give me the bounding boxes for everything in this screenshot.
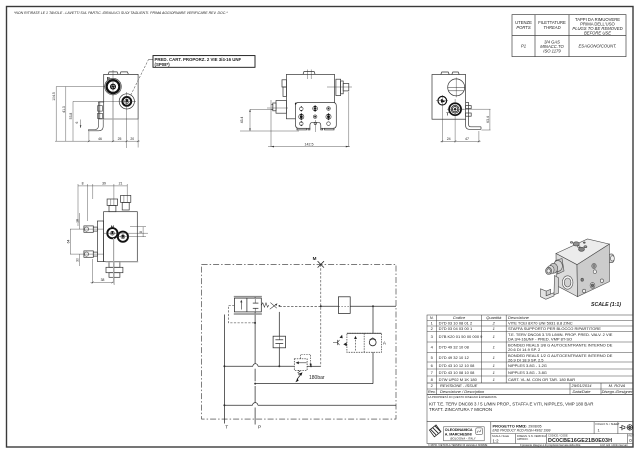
svg-text:ISO 1179: ISO 1179 bbox=[543, 49, 561, 54]
port M bbox=[107, 228, 117, 238]
svg-text:1:2: 1:2 bbox=[493, 438, 500, 443]
bottom dimension 142.5 bbox=[270, 100, 272, 147]
svg-text:8: 8 bbox=[139, 231, 143, 233]
svg-text:1: 1 bbox=[493, 355, 495, 360]
centerlines bbox=[56, 86, 105, 88]
svg-text:20: 20 bbox=[130, 137, 134, 141]
top tab 1 bbox=[108, 72, 118, 75]
bracket clip tabs bbox=[98, 106, 103, 111]
svg-text:Disegn./Designer: Disegn./Designer bbox=[602, 389, 633, 394]
mid horizontal line bbox=[224, 365, 253, 367]
left fitting (cylinder stack pointing left) bbox=[556, 259, 565, 275]
arrow in left cell bbox=[240, 302, 242, 310]
top dimension line bbox=[78, 185, 127, 187]
svg-text:1: 1 bbox=[493, 370, 495, 375]
svg-text:PORTS: PORTS bbox=[516, 25, 531, 30]
svg-text:PROGETTO RMD: PROGETTO RMD bbox=[493, 423, 526, 428]
left fitting upper bbox=[282, 80, 286, 87]
ports/threads table top-right bbox=[512, 15, 626, 57]
top tabs bbox=[441, 72, 449, 75]
bracket foot 3D bbox=[541, 289, 555, 300]
svg-text:Quantità: Quantità bbox=[486, 315, 502, 320]
svg-text:104.5: 104.5 bbox=[52, 92, 56, 101]
left dims bbox=[79, 213, 81, 229]
svg-text:20.6 DI 14.9 SP. 2: 20.6 DI 14.9 SP. 2 bbox=[508, 347, 541, 352]
right vertical dim 63.4 bbox=[462, 108, 491, 110]
title block outer bbox=[427, 422, 633, 444]
svg-text:STAFFA SUPPORTO PER BLOCCO RIP: STAFFA SUPPORTO PER BLOCCO RIPARTITORE bbox=[508, 326, 601, 331]
small port circle with glyph bbox=[438, 96, 447, 105]
svg-text:T: T bbox=[446, 111, 449, 116]
svg-text:180bar: 180bar bbox=[309, 375, 325, 381]
bottom dim 38 bbox=[92, 259, 94, 284]
svg-text:P: P bbox=[258, 425, 261, 431]
svg-text:NIPPLES 3.8G - 1.2G: NIPPLES 3.8G - 1.2G bbox=[508, 363, 547, 368]
empty component box on line bbox=[338, 297, 350, 314]
svg-text:M. ROVA: M. ROVA bbox=[609, 383, 626, 388]
svg-text:53.8: 53.8 bbox=[69, 113, 73, 120]
top tab 2 bbox=[120, 72, 128, 75]
svg-text:N.: N. bbox=[430, 315, 434, 320]
svg-text:30: 30 bbox=[76, 258, 80, 262]
main body bbox=[286, 74, 334, 118]
proportional flow control valve body bbox=[234, 298, 261, 312]
stud pin upper bbox=[84, 226, 93, 232]
svg-text:D7D 49 32 10 08: D7D 49 32 10 08 bbox=[439, 345, 470, 350]
left face large bore bbox=[562, 276, 573, 289]
left dimension lines bbox=[55, 87, 57, 142]
svg-text:CODICE / CODE: CODICE / CODE bbox=[548, 434, 568, 438]
svg-text:24: 24 bbox=[447, 137, 451, 141]
svg-text:KIT T.E. TERV DNC08 3 / 5 L/MI: KIT T.E. TERV DNC08 3 / 5 L/MIN PROP., S… bbox=[429, 401, 593, 406]
svg-text:THREAD: THREAD bbox=[543, 25, 560, 30]
parts list table bbox=[427, 315, 633, 395]
bottom line bbox=[224, 404, 252, 406]
port 2 bbox=[118, 232, 128, 242]
view 2: front view with mounting plate bbox=[240, 70, 352, 148]
svg-text:Rev.: Rev. bbox=[428, 389, 436, 394]
svg-text:1: 1 bbox=[493, 345, 495, 350]
top tab bbox=[303, 72, 315, 75]
svg-text:47: 47 bbox=[465, 137, 469, 141]
svg-text:NIPPLES 3.8G - 3.8G: NIPPLES 3.8G - 3.8G bbox=[508, 370, 547, 375]
svg-text:VITE TCEI 8X70 UNI 5931 8.8 ZI: VITE TCEI 8X70 UNI 5931 8.8 ZINC bbox=[508, 321, 573, 326]
envelope dash-dot border bbox=[202, 264, 396, 419]
svg-text:38: 38 bbox=[101, 278, 105, 282]
bracket plate right of block bbox=[466, 101, 469, 103]
block body bbox=[432, 75, 466, 120]
svg-text:A.M. tutti i diritti riservati: A.M. tutti i diritti riservati bbox=[600, 443, 628, 447]
svg-text:D7D 03 10 08 01 2: D7D 03 10 08 01 2 bbox=[439, 321, 473, 326]
svg-text:Codice: Codice bbox=[453, 315, 466, 320]
svg-text:D7D 43 10 08 10 08: D7D 43 10 08 10 08 bbox=[439, 370, 476, 375]
svg-text:1: 1 bbox=[493, 363, 495, 368]
company name text box bbox=[444, 427, 485, 441]
svg-text:ESAGONO/COUNT.: ESAGONO/COUNT. bbox=[578, 44, 616, 49]
right side boss bbox=[609, 254, 614, 263]
svg-text:8: 8 bbox=[82, 181, 84, 185]
right small dim bbox=[130, 226, 146, 228]
description cell bbox=[427, 395, 633, 422]
svg-text:39: 39 bbox=[102, 181, 106, 185]
PROGETTO cell text bbox=[493, 423, 551, 432]
left face bbox=[556, 254, 578, 297]
column 3 bbox=[327, 107, 331, 111]
projection symbols (first angle) bbox=[620, 424, 634, 430]
port P outer ring bbox=[105, 78, 122, 95]
svg-text:D7W UP02 M 1K 180: D7W UP02 M 1K 180 bbox=[439, 377, 478, 382]
svg-text:*NON RITIRATE LE 1 TAVOLE - LA: *NON RITIRATE LE 1 TAVOLE - LAVETTI SUL … bbox=[14, 11, 228, 15]
centerlines bbox=[441, 95, 443, 106]
right face port holes bbox=[592, 263, 596, 268]
black locating dot bbox=[295, 103, 298, 106]
horizontal centerline through block bbox=[104, 232, 148, 234]
left fitting lower (nipple profile) bbox=[276, 101, 286, 114]
right fitting (nipple) bbox=[336, 79, 341, 95]
main horizontal line bbox=[279, 305, 320, 307]
block body (bottom edge hidden by gray path line) bbox=[104, 74, 138, 119]
svg-text:142.5: 142.5 bbox=[305, 142, 314, 146]
column 2 bbox=[313, 106, 318, 111]
svg-text:43.4: 43.4 bbox=[240, 117, 244, 124]
plate bottom feet bbox=[297, 128, 307, 130]
right branch bottom line bbox=[255, 383, 373, 385]
svg-text:DA 3/4-16UNF - PRED. VMP 8T-SO: DA 3/4-16UNF - PRED. VMP 8T-SO bbox=[508, 336, 572, 341]
svg-text:(SP08*): (SP08*) bbox=[155, 62, 171, 67]
svg-text:Il presente disegno è di propr: Il presente disegno è di proprietà riser… bbox=[520, 443, 581, 447]
svg-text:1: 1 bbox=[493, 326, 495, 331]
stamp seal bbox=[476, 428, 483, 435]
svg-text:© RIPR. VIETATA A TERMINI DI L: © RIPR. VIETATA A TERMINI DI LEGGE A NOR… bbox=[428, 443, 488, 447]
gray P path highlight bbox=[113, 238, 115, 283]
svg-text:FOGLIO N. / SHEET: FOGLIO N. / SHEET bbox=[596, 422, 620, 426]
block body bbox=[104, 212, 138, 262]
svg-text:BOLOGNA - ITALY: BOLOGNA - ITALY bbox=[450, 437, 476, 441]
blocked ports in right cell bbox=[253, 302, 259, 304]
svg-text:M: M bbox=[313, 256, 317, 261]
FOGLIO cell bbox=[596, 422, 620, 432]
svg-text:APPROV.: APPROV. bbox=[517, 437, 529, 441]
relief adjustment arrow bbox=[297, 374, 302, 380]
stud pin lower bbox=[84, 251, 93, 257]
svg-text:CART. VL.M. CON OR TAR. 180 BA: CART. VL.M. CON OR TAR. 180 BAR bbox=[508, 377, 575, 382]
svg-text:TRATT. ZINCATURA 7 MICRON: TRATT. ZINCATURA 7 MICRON bbox=[429, 407, 492, 412]
2-way cartridge valve with check bbox=[347, 333, 382, 352]
relief valve VMP bbox=[294, 359, 307, 371]
plate holes: column 1 bbox=[299, 105, 331, 126]
svg-text:21: 21 bbox=[119, 181, 123, 185]
svg-text:41.3: 41.3 bbox=[62, 106, 66, 113]
left T line bbox=[223, 315, 225, 406]
svg-text:46: 46 bbox=[98, 137, 102, 141]
top face ports bbox=[573, 242, 579, 246]
DISEGN cell bbox=[517, 434, 546, 441]
large bore circle bbox=[448, 79, 465, 96]
bracket clips bbox=[466, 106, 472, 109]
svg-text:SCALE (1:1): SCALE (1:1) bbox=[591, 302, 621, 308]
top plug fitting right (taller) bbox=[121, 195, 131, 202]
right face bbox=[577, 244, 609, 297]
port T rings bbox=[449, 103, 461, 115]
view 3: right side view with bracket bbox=[432, 72, 491, 142]
svg-text:63.4: 63.4 bbox=[486, 116, 490, 123]
part number cell bbox=[548, 434, 612, 445]
relief spring bbox=[298, 370, 300, 375]
top face bbox=[556, 239, 609, 265]
pilot dashed line bbox=[229, 305, 255, 323]
leader line to callout bbox=[129, 60, 149, 99]
gray highlighted P line bbox=[234, 296, 262, 424]
svg-text:26.9 DI 18.9 SP. 2.5: 26.9 DI 18.9 SP. 2.5 bbox=[508, 357, 544, 362]
extension lines to bottom dims bbox=[441, 106, 443, 142]
bracket plate edge-on left of block bbox=[89, 102, 99, 130]
svg-text:BEFORE USE: BEFORE USE bbox=[584, 31, 611, 36]
view 4: side view with plugs (mid-left) bbox=[67, 181, 148, 285]
left vertical dimension 43.4 bbox=[240, 130, 299, 132]
gray P path highlight bbox=[99, 94, 138, 143]
relief pilot loop bbox=[301, 355, 311, 365]
spring on right of valve bbox=[261, 303, 269, 307]
port P hex socket center bbox=[110, 84, 116, 90]
notch centerline bbox=[314, 120, 316, 132]
svg-text:P1: P1 bbox=[521, 44, 526, 49]
svg-text:25: 25 bbox=[118, 137, 122, 141]
port 2 (cartridge cavity) rings bbox=[119, 94, 134, 109]
bottom tiny print bbox=[428, 443, 628, 447]
callout box PRED. CART. bbox=[153, 56, 255, 68]
orifice/plug component bbox=[278, 312, 280, 366]
junction to right branch bbox=[372, 305, 374, 307]
svg-text:1: 1 bbox=[493, 377, 495, 382]
bottom dimension line bbox=[88, 131, 90, 142]
svg-text:1: 1 bbox=[493, 334, 495, 339]
svg-text:P: P bbox=[107, 76, 110, 81]
svg-text:6: 6 bbox=[75, 121, 79, 123]
proportional arrow symbol bbox=[270, 303, 277, 310]
svg-text:64: 64 bbox=[67, 240, 71, 244]
svg-text:D7D 43 10 12 10 08: D7D 43 10 12 10 08 bbox=[439, 363, 476, 368]
svg-text:END PRODUCT RCD RUSH 49/62: END PRODUCT RCD RUSH 49/62 1999 bbox=[493, 429, 551, 433]
svg-text:SCALA / Scale: SCALA / Scale bbox=[492, 434, 510, 438]
left bracket plate edge-on bbox=[97, 221, 103, 262]
title block bbox=[427, 395, 634, 448]
T stub below border bbox=[223, 405, 225, 423]
svg-text:D7D 49 32 10 12: D7D 49 32 10 12 bbox=[439, 355, 470, 360]
hydraulic schematic bbox=[202, 256, 396, 431]
SCALA cell bbox=[492, 434, 510, 444]
M line (gauge, dashed) bbox=[320, 264, 322, 366]
view 1: top view of manifold with bracket bbox=[52, 56, 255, 148]
company logo diamond bbox=[429, 424, 442, 437]
svg-text:Descrizione / Description: Descrizione / Description bbox=[440, 389, 485, 394]
isometric 3D view bbox=[541, 239, 622, 308]
top plug fitting left bbox=[107, 199, 118, 205]
bottom fitting bbox=[109, 262, 120, 268]
svg-text:D7B K20 01 50 00 000 9: D7B K20 01 50 00 000 9 bbox=[439, 334, 484, 339]
svg-text:REV: REV bbox=[629, 433, 635, 437]
svg-text:Descrizione: Descrizione bbox=[508, 315, 530, 320]
svg-text:D7D 03 04 03 00 1: D7D 03 04 03 00 1 bbox=[439, 326, 473, 331]
valve left spring/solenoid symbols bbox=[340, 335, 343, 338]
mounting plate with U-notch bbox=[296, 102, 337, 128]
svg-text:18: 18 bbox=[76, 219, 80, 223]
svg-text:29/01/2014: 29/01/2014 bbox=[570, 383, 592, 388]
svg-text:Data/Date: Data/Date bbox=[572, 389, 591, 394]
REV cell bbox=[629, 433, 635, 443]
svg-text:T: T bbox=[225, 425, 228, 431]
svg-text:REVISIONE - ISSUE: REVISIONE - ISSUE bbox=[440, 383, 478, 388]
